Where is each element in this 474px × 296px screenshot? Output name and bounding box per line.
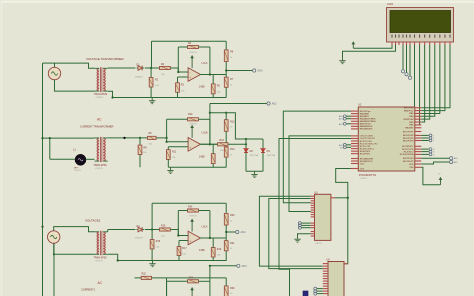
svg-text:U1:A: U1:A (202, 61, 208, 65)
svg-text:VOLTAGE1: VOLTAGE1 (85, 219, 101, 223)
svg-text:RC4/SDI/SDA: RC4/SDI/SDA (400, 153, 414, 156)
svg-text:RD4/PSP4: RD4/PSP4 (403, 140, 414, 142)
svg-text:TRAN-2P2S: TRAN-2P2S (94, 164, 108, 167)
svg-text:RD7/PSP7: RD7/PSP7 (403, 131, 414, 133)
svg-text:CURRENT TRANSFORMER: CURRENT TRANSFORMER (80, 125, 113, 129)
svg-text:R12: R12 (230, 121, 235, 124)
svg-text:AC: AC (98, 281, 103, 285)
svg-text:VDD: VDD (409, 164, 414, 166)
svg-text:<TEXT>: <TEXT> (95, 167, 104, 170)
svg-text:<TEXT>: <TEXT> (96, 96, 105, 99)
svg-text:AD2: AD2 (241, 230, 247, 234)
svg-text:1458: 1458 (199, 86, 205, 89)
svg-text:AD1: AD1 (272, 102, 278, 106)
svg-text:R26: R26 (230, 287, 235, 290)
svg-text:-: - (189, 233, 190, 237)
svg-text:R11: R11 (172, 151, 177, 154)
svg-text:1N4007: 1N4007 (135, 238, 143, 240)
svg-text:1458: 1458 (199, 156, 205, 159)
svg-text:1N4733A: 1N4733A (267, 154, 276, 157)
svg-text:R16: R16 (161, 225, 166, 228)
svg-text:R14: R14 (188, 206, 193, 209)
svg-text:RE0/AN5/RD: RE0/AN5/RD (360, 128, 373, 131)
svg-text:R10: R10 (188, 113, 193, 116)
svg-text:R19: R19 (217, 248, 222, 251)
svg-text:PIC16F877A: PIC16F877A (359, 173, 376, 177)
svg-text:R13: R13 (220, 139, 225, 142)
svg-text:1N4733A: 1N4733A (250, 154, 259, 157)
svg-text:RB0/INT: RB0/INT (405, 128, 414, 130)
svg-text:VSS: VSS (409, 167, 414, 169)
svg-text:+: + (189, 240, 191, 244)
svg-text:-: - (189, 140, 190, 144)
svg-text:RC7/RX/DT: RC7/RX/DT (402, 146, 414, 148)
svg-text:<TEXT>: <TEXT> (74, 169, 82, 172)
svg-text:<TEXT>: <TEXT> (95, 259, 104, 262)
svg-text:VDD: VDD (360, 163, 365, 165)
svg-text:R20: R20 (230, 214, 235, 217)
svg-text:AD0: AD0 (257, 69, 263, 73)
svg-text:VOLTAGE TRANSFORMER: VOLTAGE TRANSFORMER (86, 57, 125, 61)
svg-text:R17: R17 (182, 247, 187, 250)
svg-text:<TEXT>: <TEXT> (189, 123, 198, 126)
svg-text:+: + (189, 146, 191, 150)
svg-text:<TEXT>: <TEXT> (360, 177, 369, 180)
svg-text:VSS: VSS (360, 168, 365, 170)
svg-text:R24: R24 (189, 277, 194, 280)
svg-text:AD3: AD3 (242, 264, 248, 268)
svg-text:R21: R21 (230, 242, 235, 245)
svg-text:-: - (189, 70, 190, 74)
svg-text:<TEXT>: <TEXT> (189, 51, 198, 54)
svg-text:R15: R15 (156, 240, 161, 243)
svg-text:TRAN-2P2S: TRAN-2P2S (94, 256, 108, 259)
svg-text:RD3/PSP3: RD3/PSP3 (403, 158, 414, 160)
svg-text:RB7/PGD: RB7/PGD (404, 108, 414, 110)
svg-text:R14: R14 (230, 148, 235, 151)
svg-text:RD1/PSP1: RD1/PSP1 (360, 153, 371, 155)
svg-text:U1:B: U1:B (202, 131, 208, 135)
svg-text:<TEXT>: <TEXT> (315, 242, 323, 245)
svg-text:R22: R22 (142, 272, 147, 275)
svg-text:1N4007: 1N4007 (135, 76, 143, 78)
svg-text:1458: 1458 (199, 249, 205, 252)
svg-text:U2:A: U2:A (202, 224, 208, 228)
svg-text:AC: AC (97, 118, 102, 122)
svg-text:RA1/AN1: RA1/AN1 (360, 115, 370, 118)
svg-text:CURRENT1: CURRENT1 (81, 287, 96, 291)
svg-text:RD2/PSP2: RD2/PSP2 (403, 161, 414, 163)
svg-text:TRAN-2P2S: TRAN-2P2S (94, 93, 108, 96)
svg-text:<TEXT>: <TEXT> (189, 215, 198, 218)
svg-text:RB6/PGC: RB6/PGC (404, 110, 414, 112)
svg-text:LCD1: LCD1 (387, 3, 394, 6)
svg-text:RB3/PGM: RB3/PGM (404, 119, 414, 121)
svg-text:1: 1 (433, 141, 434, 143)
svg-text:+: + (189, 76, 191, 80)
svg-text:RC5/SDO: RC5/SDO (404, 151, 414, 153)
